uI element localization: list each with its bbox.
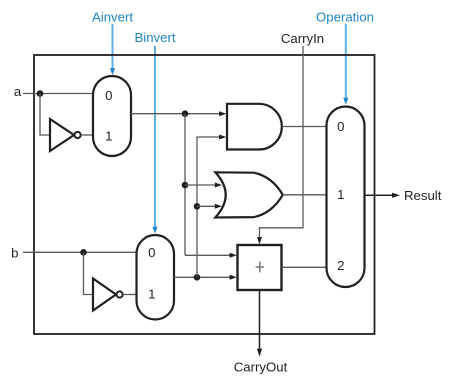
enclosure box: [34, 55, 375, 334]
wire a-prime to OR input 1: [185, 184, 215, 186]
svg-text:0: 0: [337, 119, 344, 134]
inverter (NOT gate) for b: [93, 279, 123, 311]
wire Ainvert control line: [112, 24, 114, 69]
inverter (NOT gate) for a: [50, 119, 81, 151]
node junction b-prime: [194, 274, 201, 281]
node junction on b: [80, 249, 87, 256]
wire b to inverter B: [84, 252, 94, 294]
mux B (Binvert 2:1 multiplexer): [137, 235, 175, 320]
svg-text:Result: Result: [404, 188, 442, 203]
svg-text:1: 1: [148, 287, 155, 302]
adder (+): [238, 245, 282, 290]
wire a to inverter A: [40, 94, 50, 136]
wire AND output to result mux input 0: [282, 126, 327, 128]
arrowhead Operation into result mux: [343, 98, 348, 105]
svg-text:CarryOut: CarryOut: [234, 359, 288, 374]
OR gate: [215, 172, 282, 217]
wire inverter B output to mux B: [123, 294, 137, 296]
wire mux A output to AND gate: [131, 113, 220, 115]
arrowhead CarryIn into adder: [257, 237, 262, 244]
svg-text:Ainvert: Ainvert: [92, 10, 133, 25]
svg-text:b: b: [11, 245, 18, 260]
wire Binvert control line: [154, 46, 156, 227]
wire inverter A output to mux A: [81, 134, 93, 136]
svg-text:Operation: Operation: [316, 10, 374, 25]
arrowhead Binvert into mux B: [152, 227, 157, 234]
arrowhead into adder input 2: [230, 275, 237, 280]
wire b input: [23, 251, 137, 253]
arrowhead into OR input 1: [215, 183, 222, 188]
wire CarryIn line: [260, 46, 304, 239]
svg-text:2: 2: [337, 258, 344, 273]
node junction a-prime to OR: [182, 182, 189, 189]
wire mux B output to adder: [174, 276, 231, 278]
mux A (Ainvert 2:1 multiplexer): [93, 76, 131, 156]
arrowhead into adder input 1: [230, 253, 237, 258]
svg-text:0: 0: [148, 245, 155, 260]
wire adder output to result mux input 2: [282, 266, 327, 268]
svg-text:Binvert: Binvert: [134, 30, 175, 45]
wire CarryOut: [259, 290, 261, 350]
svg-text:1: 1: [337, 187, 344, 202]
svg-text:CarryIn: CarryIn: [281, 31, 324, 46]
arrowhead Ainvert into mux A: [110, 68, 115, 75]
node junction on a: [37, 90, 44, 97]
arrowhead into AND input 2: [219, 135, 226, 140]
wire OR output to result mux input 1: [283, 194, 327, 196]
arrowhead into OR input 2: [215, 204, 222, 209]
label plus sign: [256, 262, 264, 273]
arrowhead Result: [392, 193, 400, 198]
wire a input: [23, 93, 93, 95]
node junction a-prime: [182, 110, 189, 117]
node junction b-prime to OR: [194, 203, 201, 210]
arrowhead into AND input 1: [219, 111, 226, 116]
AND gate: [227, 104, 282, 150]
wire b-prime to OR input 2: [197, 205, 215, 207]
arrowhead CarryOut: [257, 349, 262, 357]
wire a-prime vertical branch: [184, 114, 186, 256]
svg-text:a: a: [14, 84, 22, 99]
wire Result output: [365, 194, 394, 196]
wire b-prime vertical branch: [197, 137, 220, 277]
wire a-prime to adder input 1: [185, 254, 231, 256]
result mux (Operation 3:1 multiplexer): [327, 107, 365, 288]
svg-text:0: 0: [105, 88, 112, 103]
wire Operation control line: [345, 24, 347, 98]
svg-text:1: 1: [105, 129, 112, 144]
